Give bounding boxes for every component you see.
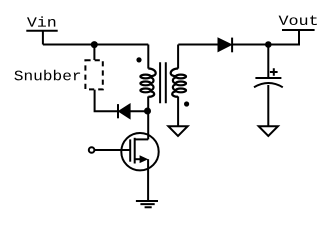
wire primary bottom to MOSFET drain [147,96,149,139]
wire secondary bottom to ground [177,96,179,126]
node Vout label [279,16,317,26]
transistor Q1 source arrow head [140,155,149,163]
capacitor C1 curved bottom plate [254,83,283,87]
wire gate terminal to MOSFET [95,149,130,151]
transistor Q1 body circle [121,133,158,170]
capacitor C1 top plate [255,77,281,79]
wire capacitor to ground [267,85,269,126]
diode D2 snubber triangle [119,104,131,119]
terminal Vin bar [26,30,57,32]
wire node A down to snubber box [93,43,95,60]
transformer T1 secondary winding (mirror of primary) [171,69,186,97]
wire top-right rail to output diode [178,44,218,46]
transistor Q1 source link with arrow [135,158,141,160]
diode D2 snubber (pointing left) cathode bar [117,104,119,118]
node Vin label [27,16,55,26]
transistor Q1 drain link [135,138,149,140]
junction node C (primary bottom / drain) [144,108,151,115]
node Snubber label [14,70,80,81]
transformer T1 primary phase dot [136,57,141,62]
capacitor C1 plus sign [270,68,278,76]
transformer T1 secondary phase dot [184,101,189,106]
terminal Vout bar [282,29,315,31]
transformer T1 core [160,62,166,103]
diode D1 cathode bar [231,38,233,53]
transistor Q1 channel bar [134,138,136,164]
wire source down to ground [147,159,149,201]
junction node A (snubber tap) [91,41,98,48]
ground (arrow) below capacitor [259,126,278,136]
wire snubber box bottom down and right to diode [95,90,118,112]
wire node B down to capacitor [267,45,269,79]
ground (arrow) below secondary [168,126,187,136]
wire diode D1 to node B [232,44,268,46]
wire top-left rail to transformer primary [43,44,148,46]
wire secondary top to rail [177,45,179,69]
wire node B to Vout stub [268,30,299,45]
transistor Q1 gate bar [129,139,131,161]
wire Vin stub down [42,31,44,45]
wire diode D2 to node C [130,110,148,112]
transistor Q1 gate terminal circle [89,147,95,153]
diode D1 output triangle (pointing right) [218,38,232,52]
ground (earth) below MOSFET [136,201,158,207]
wire transformer primary drop from rail [147,45,149,69]
junction node B (output node) [265,41,272,48]
snubber box (dashed) [85,60,102,89]
transformer T1 primary winding [140,69,155,97]
